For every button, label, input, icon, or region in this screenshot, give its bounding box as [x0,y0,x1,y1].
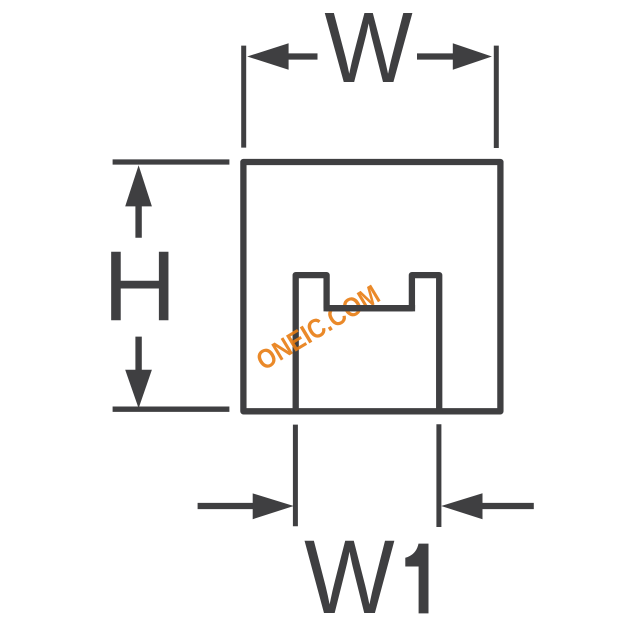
svg-text:W: W [304,519,395,636]
package outline (outer square) [243,162,500,411]
terminal contour (inner shape with two tabs) [296,275,440,411]
H dimension line upper shaft [135,205,141,238]
H dimension arrowhead up [125,165,152,206]
H dimension line lower shaft [135,337,141,371]
W dimension line right shaft [417,53,454,59]
H extension line top [113,159,230,164]
W extension line right [494,46,499,148]
W1 dimension line right shaft [482,503,534,509]
W extension line left [241,46,246,148]
terminal contour middle segment redrawn over watermark [324,305,416,311]
W1 dimension arrowhead left (points right) [253,493,294,519]
H extension line bottom [113,407,230,412]
W dimension line left shaft [288,53,318,59]
W1 dimension arrowhead right (points left) [441,493,482,519]
W1 dimension line left shaft [198,503,254,509]
H dimension arrowhead down [125,370,152,409]
W1 extension line left [293,425,298,527]
W dimension arrowhead left [247,43,288,70]
label W1 (digit 1) [405,544,428,614]
svg-text:H: H [103,232,177,342]
svg-text:W: W [324,0,413,104]
W1 extension line right [436,424,441,527]
W dimension arrowhead right [453,43,492,70]
